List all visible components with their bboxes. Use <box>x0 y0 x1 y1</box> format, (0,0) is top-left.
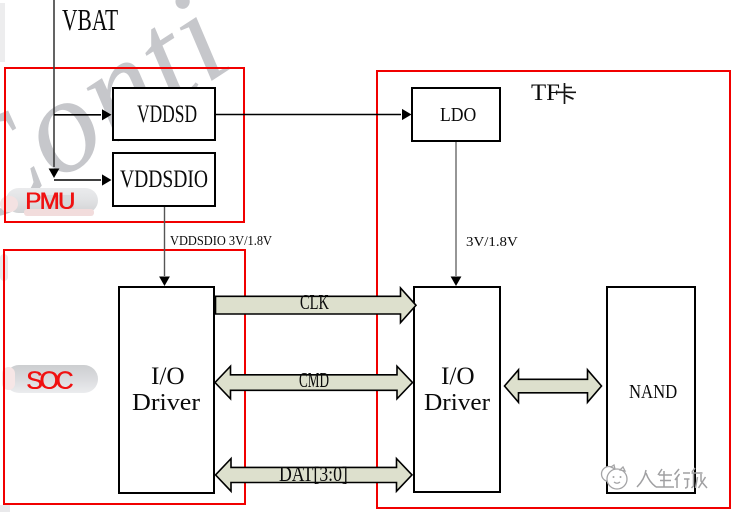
label PMU <box>25 190 74 214</box>
watermark pink smudge PMU <box>24 209 94 216</box>
VDDSDIO box <box>112 152 216 207</box>
bus arrow CMD double headed <box>215 366 413 399</box>
arrowhead into VDDSDIO <box>102 174 112 185</box>
watermark pink cap SOC <box>2 367 15 390</box>
PMU red rectangle <box>4 67 245 223</box>
arrowhead into VDDSD <box>102 109 112 120</box>
LDO box <box>411 87 501 142</box>
bus arrow DAT[3:0] double headed <box>216 459 413 492</box>
label DAT[3:0] <box>279 464 348 485</box>
label I/O SOC <box>151 364 185 389</box>
bus arrow I/O driver to NAND double headed <box>505 370 602 403</box>
arrowhead into SOC I/O driver <box>159 277 170 287</box>
label 3V/1.8V <box>466 236 518 250</box>
label Driver SOC <box>132 391 200 415</box>
watermark blob left edge mid <box>0 254 8 281</box>
label TF card Chinese char ka <box>555 82 578 106</box>
watermark Confidential text <box>0 0 256 260</box>
char sheng <box>656 469 674 487</box>
label SOC <box>26 369 70 394</box>
label TF card <box>531 81 560 104</box>
label VDDSDIO 3V/1.8V <box>170 235 272 249</box>
label CMD <box>299 370 329 391</box>
arrowhead into LDO <box>402 109 412 120</box>
watermark pill behind PMU <box>6 188 98 213</box>
watermark pink cap PMU <box>0 196 18 212</box>
watermark gray strip top-left <box>0 3 5 62</box>
label NAND <box>629 382 677 402</box>
char xing <box>675 469 691 488</box>
bus arrow CLK <box>216 288 417 323</box>
wire LDO down to TF I/O driver <box>455 142 457 276</box>
wire VDDSD to LDO <box>216 114 401 116</box>
label VDDSDIO <box>120 167 208 192</box>
arrowhead down at VBAT corner <box>49 169 60 179</box>
label VDDSD <box>137 102 197 127</box>
label CLK <box>300 292 329 313</box>
wire VBAT branch to VDDSD <box>54 114 101 116</box>
TF I/O driver box <box>413 286 501 493</box>
label LDO <box>440 105 476 125</box>
char ren <box>637 470 656 487</box>
SOC red rectangle <box>3 249 246 505</box>
wire VDDSDIO down to SOC I/O driver <box>164 207 166 276</box>
NAND box <box>606 286 696 494</box>
label Driver TF <box>424 391 490 415</box>
label VBAT <box>62 4 118 35</box>
TF card red rectangle <box>376 70 731 509</box>
VDDSD box <box>112 87 216 141</box>
SOC I/O driver box <box>118 286 215 494</box>
watermark pill behind SOC <box>5 365 98 393</box>
label I/O TF <box>441 364 475 389</box>
wire VBAT corner to VDDSDIO <box>54 179 101 181</box>
wire VBAT vertical <box>53 0 55 167</box>
watermark logo ren sheng xing lv bottom right <box>600 464 716 492</box>
logo icon cat in bubble <box>602 465 628 489</box>
watermark gray corner bottom-left <box>0 505 10 512</box>
watermark gray patch PMU <box>46 195 74 213</box>
arrowhead into TF I/O driver <box>451 277 462 287</box>
char lv <box>692 468 708 488</box>
